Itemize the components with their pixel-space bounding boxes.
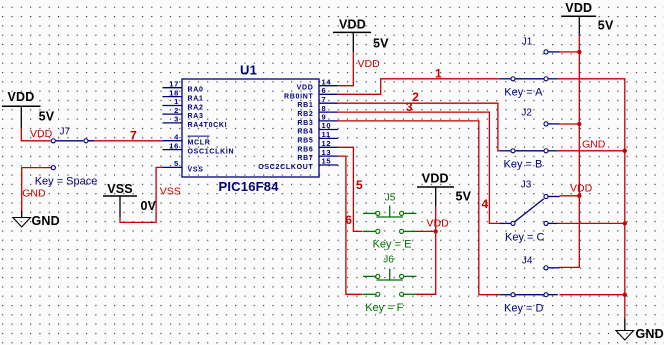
label J6 <box>383 254 394 265</box>
svg-text:VSS: VSS <box>160 185 181 197</box>
svg-text:2: 2 <box>174 106 179 115</box>
wire 1: U1 pin6 RB0INT to J1 <box>338 79 500 95</box>
label Key = A <box>504 87 543 99</box>
svg-text:VDD: VDD <box>565 1 592 15</box>
svg-text:11: 11 <box>322 130 331 139</box>
U1 pin 11 (RB5) right stub <box>297 130 338 144</box>
svg-text:Key = D: Key = D <box>504 302 543 314</box>
svg-text:Key = F: Key = F <box>365 302 403 314</box>
svg-text:GND: GND <box>32 214 60 228</box>
svg-text:VDD: VDD <box>422 172 449 186</box>
wire: VSS symbol to U1 pin5 <box>120 167 163 222</box>
svg-text:5V: 5V <box>39 110 55 124</box>
svg-text:J7: J7 <box>60 127 71 138</box>
wire 2: U1 pin7 RB1 to J2 <box>338 103 500 151</box>
wire: J2 to GND rail <box>558 150 625 152</box>
svg-text:Key = E: Key = E <box>373 239 412 251</box>
wire: VDD center rail to J5/J6 <box>417 206 436 294</box>
svg-text:RB0INT: RB0INT <box>284 93 314 100</box>
svg-text:17: 17 <box>169 79 179 88</box>
svg-text:5V: 5V <box>373 37 389 51</box>
svg-text:2: 2 <box>412 90 419 104</box>
svg-text:5: 5 <box>174 159 179 168</box>
svg-text:J2: J2 <box>521 107 532 118</box>
switch J4 (SPDT, Key = D) <box>500 266 560 297</box>
U1 pin 17 (RA0) left stub <box>163 79 204 93</box>
wire: VDD rail right <box>559 35 579 268</box>
svg-text:Key = C: Key = C <box>505 232 544 244</box>
svg-text:U1: U1 <box>240 63 257 78</box>
wire label 2 <box>412 90 419 104</box>
wire: J5 right pin to VDD center rail <box>417 230 436 232</box>
junction J2-GND rail <box>623 149 627 153</box>
power symbol VSS (0V) <box>103 182 157 217</box>
svg-text:4: 4 <box>174 132 179 141</box>
svg-text:10: 10 <box>322 121 332 130</box>
svg-text:5V: 5V <box>598 19 614 33</box>
power symbol VDD (top-center) <box>333 18 389 53</box>
wire: J3 top throw to VDD rail <box>560 195 580 197</box>
wire label 4 <box>481 197 488 211</box>
svg-text:13: 13 <box>322 148 332 157</box>
junction J2-VDD rail <box>577 122 581 126</box>
wire: J2 top throw to VDD rail <box>560 123 580 125</box>
wire: J7 lower throw to GND left <box>22 168 51 211</box>
wire label 5 <box>356 178 363 192</box>
svg-text:VSS: VSS <box>107 182 133 196</box>
label Key = F <box>365 302 403 314</box>
net label VSS <box>160 185 181 197</box>
label Key = C <box>505 232 544 244</box>
svg-text:PIC16F84: PIC16F84 <box>219 179 280 194</box>
svg-text:RB5: RB5 <box>297 137 313 144</box>
svg-text:5V: 5V <box>456 190 472 204</box>
label J5 <box>385 192 396 203</box>
svg-text:J4: J4 <box>522 256 533 267</box>
svg-text:J5: J5 <box>385 192 396 203</box>
svg-text:0V: 0V <box>141 199 157 213</box>
svg-text:GND: GND <box>582 139 606 151</box>
power symbol VDD (top-left) <box>2 90 55 128</box>
svg-text:VDD: VDD <box>30 128 53 140</box>
wire 4: U1 pin9 RB3 to J4 <box>338 121 500 295</box>
U1 pin 12 (RB6) right stub <box>297 139 338 153</box>
svg-text:RA0: RA0 <box>188 87 204 94</box>
svg-text:Key = Space: Key = Space <box>35 176 98 188</box>
svg-text:GND: GND <box>22 188 46 200</box>
svg-text:VDD: VDD <box>358 58 381 70</box>
wire: J3 to GND rail <box>558 222 625 224</box>
svg-text:RB3: RB3 <box>297 120 313 127</box>
wire 3: U1 pin8 RB2 to J3 <box>338 112 500 223</box>
svg-text:RB2: RB2 <box>297 111 313 118</box>
op-amp/IC U1 PIC16F84 box <box>182 63 319 195</box>
power symbol VDD (top-right) <box>561 1 614 35</box>
svg-text:VDD: VDD <box>570 182 593 194</box>
U1 pin 16 (OSC1CLKIN) left stub <box>163 141 235 155</box>
label Key = D <box>504 302 543 314</box>
wire label 6 <box>345 213 352 227</box>
net label VDD (left) <box>30 128 53 140</box>
svg-text:7: 7 <box>130 128 137 142</box>
svg-text:VDD: VDD <box>427 218 450 230</box>
label Key = B <box>504 159 543 171</box>
power symbol VDD (center) <box>417 172 472 207</box>
U1 pin 10 (RB4) right stub <box>297 121 338 135</box>
svg-text:RA2: RA2 <box>188 105 204 112</box>
junction J3-VDD rail <box>577 194 581 198</box>
U1 pin 8 (RB2) right stub <box>297 104 338 118</box>
svg-text:4: 4 <box>481 197 488 211</box>
U1 pin 14 (VDD) right stub <box>297 77 338 91</box>
svg-text:RA4T0CKI: RA4T0CKI <box>188 122 228 129</box>
svg-text:MCLR: MCLR <box>188 140 211 147</box>
junction J3-GND rail <box>623 221 627 225</box>
svg-text:RB7: RB7 <box>297 155 313 162</box>
svg-text:16: 16 <box>169 141 179 150</box>
svg-text:5: 5 <box>356 178 363 192</box>
U1 pin 5 (VSS) left stub <box>163 159 204 173</box>
svg-text:OSC2CLKOUT: OSC2CLKOUT <box>258 164 313 171</box>
switch J1 (SPDT, Key = A) <box>500 50 560 81</box>
U1 pin 6 (RB0INT) right stub <box>284 86 338 100</box>
svg-text:J6: J6 <box>383 254 394 265</box>
svg-text:8: 8 <box>322 104 327 113</box>
svg-text:6: 6 <box>345 213 352 227</box>
U1 pin 9 (RB3) right stub <box>297 113 338 127</box>
net label VDD (center) <box>427 218 450 230</box>
wire: U1 pin14 to VDD top-center <box>338 52 354 86</box>
svg-text:RB1: RB1 <box>297 102 313 109</box>
svg-text:VSS: VSS <box>188 166 204 173</box>
U1 pin 2 (RA3) left stub <box>163 106 204 120</box>
label Key = Space <box>35 176 98 188</box>
svg-text:7: 7 <box>322 95 327 104</box>
svg-text:6: 6 <box>322 86 327 95</box>
wire 5: U1 pin12 RB6 to J5 <box>338 147 363 231</box>
U1 pin 15 (OSC2CLKOUT) right stub <box>258 157 338 171</box>
label J7 <box>60 127 71 138</box>
U1 pin 1 (RA2) left stub <box>163 97 204 111</box>
svg-text:RA1: RA1 <box>188 96 204 103</box>
wire 7: VDD top-left to J7 <box>21 128 50 141</box>
switch J6 (push button, Key = F) <box>363 269 417 297</box>
ground (left) <box>13 211 60 228</box>
wire: J4 to GND rail <box>559 294 624 296</box>
wire label 7 <box>130 128 137 142</box>
svg-text:VDD: VDD <box>339 18 366 32</box>
net label VDD (top-center wire) <box>358 58 381 70</box>
svg-text:Key = A: Key = A <box>504 87 543 99</box>
net label GND (J2 wire) <box>582 139 606 151</box>
wire 6: U1 pin13 RB7 to J6 <box>338 156 363 294</box>
switch J2 (SPDT, Key = B) <box>500 122 560 153</box>
svg-text:18: 18 <box>169 88 179 97</box>
svg-text:1: 1 <box>435 66 442 80</box>
net label VDD (J3 top) <box>570 182 593 194</box>
junction J4-GND rail <box>623 293 627 297</box>
svg-text:3: 3 <box>406 100 413 114</box>
switch J7 (SPDT, Key = Space) <box>51 139 94 170</box>
wire: GND rail right (from J1) <box>558 79 625 318</box>
U1 pin 7 (RB1) right stub <box>297 95 338 109</box>
U1 pin 4 (MCLR) left stub <box>163 132 211 146</box>
svg-text:VDD: VDD <box>297 85 314 92</box>
net label GND (left) <box>22 188 46 200</box>
svg-text:VDD: VDD <box>8 90 35 104</box>
svg-text:3: 3 <box>174 115 179 124</box>
svg-text:J1: J1 <box>522 36 533 47</box>
svg-text:12: 12 <box>322 139 332 148</box>
svg-text:GND: GND <box>636 327 664 341</box>
U1 pin 3 (RA4T0CKI) left stub <box>163 115 228 129</box>
svg-text:OSC1CLKIN: OSC1CLKIN <box>188 149 235 156</box>
svg-text:J3: J3 <box>521 180 532 191</box>
label Key = E <box>373 239 412 251</box>
switch J5 (push button, Key = E) <box>363 206 417 234</box>
wire 7: J7 to U1 pin4 MCLR <box>89 140 163 142</box>
junction J1-VDD rail <box>577 50 581 54</box>
label J4 <box>522 256 533 267</box>
wire label 1 <box>435 66 442 80</box>
svg-text:RA3: RA3 <box>188 113 204 120</box>
switch J3 (SPDT, Key = C) <box>500 194 560 225</box>
svg-text:RB6: RB6 <box>297 146 313 153</box>
svg-text:RB4: RB4 <box>297 129 313 136</box>
svg-text:Key = B: Key = B <box>504 159 543 171</box>
wire label 3 <box>406 100 413 114</box>
svg-text:15: 15 <box>322 157 332 166</box>
label J1 <box>522 36 533 47</box>
label J3 <box>521 180 532 191</box>
U1 pin 13 (RB7) right stub <box>297 148 338 162</box>
label J2 <box>521 107 532 118</box>
ground (bottom-right) <box>616 318 664 341</box>
wire: J1 top throw to VDD rail <box>560 51 580 53</box>
U1 pin 18 (RA1) left stub <box>163 88 204 102</box>
junction J5-VDD center rail <box>434 229 438 233</box>
